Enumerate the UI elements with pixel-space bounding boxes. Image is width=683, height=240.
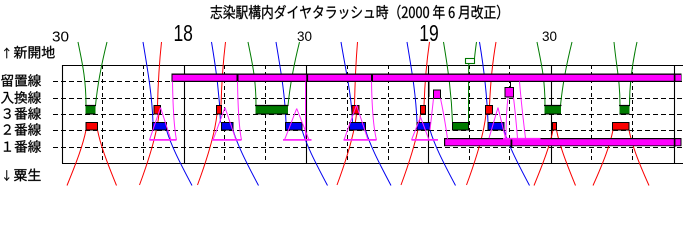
siding bar divider 18:46 (371, 74, 373, 82)
track line: down main (to Ao) y=163 (62, 163, 683, 165)
train green L7: departure to Shinkaichi from hold box (475, 42, 477, 59)
train green U4: Shinkaichi->track3 arrival (248, 42, 256, 106)
shunt pink S4: wedge left side (285, 109, 297, 141)
train green U9: Shinkaichi->track3 arrival (614, 42, 620, 106)
label: track 1 (4, 140, 41, 153)
train blue T3: Shinkaichi->track2 arrival (212, 42, 221, 123)
shunt pink S2: wedge left side (150, 108, 161, 141)
train red U5: stop square on track 3 (352, 106, 359, 115)
train green U4: long stop bar on track 3 (255, 106, 289, 115)
title: Shijimi station yard diagram (rev. June 2000) (210, 5, 500, 20)
train blue T3: departure to Ao (233, 130, 259, 186)
train green U1: departure curve (96, 42, 108, 106)
dashed track lines (siding/shunt/3/2/1) (53, 82, 683, 148)
label: up to Shinkaichi (14, 46, 55, 59)
train red U6: stop square on track 3 (421, 106, 426, 115)
train green U8: Shinkaichi->track3 arrival (537, 42, 545, 106)
solid 30-min gridlines (63, 65, 675, 164)
label: ryuchisen (storage siding) (1, 74, 41, 87)
shunt pink S3: wedge left side (213, 108, 225, 141)
train blue T5: Shinkaichi->track2 arrival (341, 42, 353, 123)
train green U9: stop square on track 3 (619, 106, 630, 115)
train green U4: departure to Shinkaichi (288, 42, 300, 106)
shunt pink S6: stop square on shunt track (434, 90, 441, 99)
shunt pink S6: wedge left side (412, 117, 421, 140)
svg-text:30: 30 (52, 29, 69, 45)
train red U3: departure to Shinkaichi (221, 42, 226, 106)
shunt pink S7: wedge left side (489, 108, 498, 139)
train blue T6: Shinkaichi->track2 arrival (407, 42, 417, 123)
train blue T4: Shinkaichi->track2 arrival (276, 42, 286, 123)
shunt pink S5: wedge left side (344, 105, 357, 140)
train red U5: Ao->track3 arrival (337, 114, 357, 185)
shunt pink S2: riser to siding bar (173, 82, 177, 141)
dashed 10-min gridlines (103, 65, 633, 164)
train red D9: stop square on track 2 (613, 123, 630, 131)
train green U9: departure to Shinkaichi (630, 42, 638, 106)
track1 storage bar (18:58-20:00+) (444, 138, 682, 146)
label: track 2 (4, 123, 41, 136)
shunt pink S6: base line (412, 139, 439, 141)
train red D9: departure to Ao (629, 130, 649, 186)
train green U1: stop square on track 3 (85, 106, 96, 115)
train blue T3: stop bar on track 2 (222, 123, 234, 131)
shunt pink S7: base line over track1 bar (503, 138, 541, 140)
shunt pink S3: riser to siding bar (238, 82, 242, 141)
shunt pink S7: left drop to track1 (506, 98, 508, 139)
shunt pink S3: wedge right side (225, 108, 236, 141)
train green L7: steep departure to main line (468, 64, 470, 123)
track1 bar divider 20:00 (674, 138, 676, 147)
train blue T5: departure to Ao (366, 130, 392, 186)
train red U5: departure to Shinkaichi (355, 42, 358, 106)
siding storage bar on ryuchisen (17:57-20:00+) (172, 74, 682, 83)
siding bar divider 18:13 (237, 74, 239, 82)
train blue T5: stop bar on track 2 (350, 123, 366, 131)
shunt pink S2: base line (150, 139, 177, 141)
train blue T2: Shinkaichi->track2 arrival (143, 42, 153, 123)
shunt pink S6: drop to track1 bar (441, 99, 448, 139)
train red U3: Ao->track3 arrival (198, 114, 218, 185)
train red U2: departure to Shinkaichi (158, 42, 162, 106)
train red D1: stop square on track 2 (86, 123, 98, 131)
track1 bar divider 19:20 (511, 138, 513, 147)
train green L7: stop bar on track 2 (453, 123, 469, 131)
train red D8: stop square on track 2 (553, 123, 557, 131)
train red D1: Ao->track2->Ao arrival curve (67, 130, 86, 186)
shunt black connector from siding bar (510, 82, 512, 88)
train blue T2: stop bar on track 2 (153, 123, 167, 131)
siding bar divider 18:30 (306, 74, 308, 82)
train green L7: brief hold box on up main line (466, 59, 475, 64)
shunt pink S7: wedge right side (498, 108, 506, 139)
train red U7: Ao->track3 arrival (467, 114, 487, 185)
shunt pink S6: wedge right side (421, 117, 430, 140)
shunt pink S4: wedge right side (297, 109, 309, 141)
shunt pink S4: riser to siding bar (305, 82, 307, 141)
shunt pink S4: base line (283, 139, 312, 141)
shunt pink S7: right drop to track1 (514, 98, 518, 139)
time label 18:30 (297, 29, 312, 44)
svg-text:30: 30 (542, 29, 557, 44)
time label 17:30 (52, 29, 69, 45)
train red D1: departure curve (98, 130, 117, 186)
shunt pink S5: base line (344, 139, 377, 141)
train blue T4: departure to Ao (302, 130, 328, 186)
shunt pink S3: base line (212, 139, 242, 141)
time label 19:00 (419, 20, 439, 46)
train blue T6: departure to Ao (430, 130, 456, 186)
shunt pink S6: track2 to shunt-track rise (430, 99, 434, 131)
train green U8: stop square on track 3 (544, 106, 562, 115)
train green U1: Shinkaichi->track3->Shinkaichi arrival curve (78, 42, 86, 106)
train red U6: departure to Shinkaichi (424, 42, 430, 106)
label: down to Ao (14, 169, 41, 182)
train red U2: stop square on track 3 (154, 106, 161, 115)
svg-text:18: 18 (173, 20, 193, 46)
svg-text:30: 30 (297, 29, 312, 44)
time label 19:30 (542, 29, 557, 44)
train blue T2: departure to Ao (167, 130, 193, 186)
time label 18:00 (173, 20, 193, 46)
label: down-direction arrow (4, 170, 9, 181)
svg-text:19: 19 (419, 20, 439, 46)
train red U3: stop square on track 3 (217, 106, 222, 115)
train blue T7: Shinkaichi->track2 arrival (480, 42, 489, 123)
train red D8: departure to Ao (557, 130, 576, 186)
train blue T7: departure to Ao (504, 130, 530, 186)
train blue T7: stop bar on track 2 (488, 123, 504, 131)
train red U2: Ao->track3 arrival (140, 114, 160, 185)
train green U8: departure to Shinkaichi (561, 42, 573, 106)
train red U7: departure to Shinkaichi (490, 42, 497, 106)
shunt pink S5: riser to siding bar (372, 82, 377, 141)
shunt pink S7: stop square on shunt track (505, 88, 514, 98)
train green L7: Shinkaichi->track2 arrival (444, 42, 453, 123)
label: track 3 (4, 107, 42, 120)
train red U6: Ao->track3 arrival (401, 114, 421, 185)
shunt pink S2: wedge right side (161, 108, 172, 141)
siding bar divider 20:00 (674, 74, 676, 82)
label: up-direction arrow (4, 48, 9, 59)
train blue T6: stop bar on track 2 (417, 123, 430, 131)
train red D9: Ao->track2 arrival (593, 130, 613, 186)
shunt pink S7: drop from siding bar to track1 (520, 82, 526, 139)
train red U7: stop square on track 3 (486, 106, 493, 115)
label: irekaesen (shunt track) (1, 91, 41, 104)
train blue T4: stop bar on track 2 (286, 123, 303, 131)
shunt pink S5: wedge right side (357, 105, 369, 140)
train red D8: Ao->track2 arrival (534, 130, 553, 186)
shunt black connector from siding bar (428, 82, 430, 97)
track line: up main (to Shinkaichi) y=65 (62, 65, 683, 67)
